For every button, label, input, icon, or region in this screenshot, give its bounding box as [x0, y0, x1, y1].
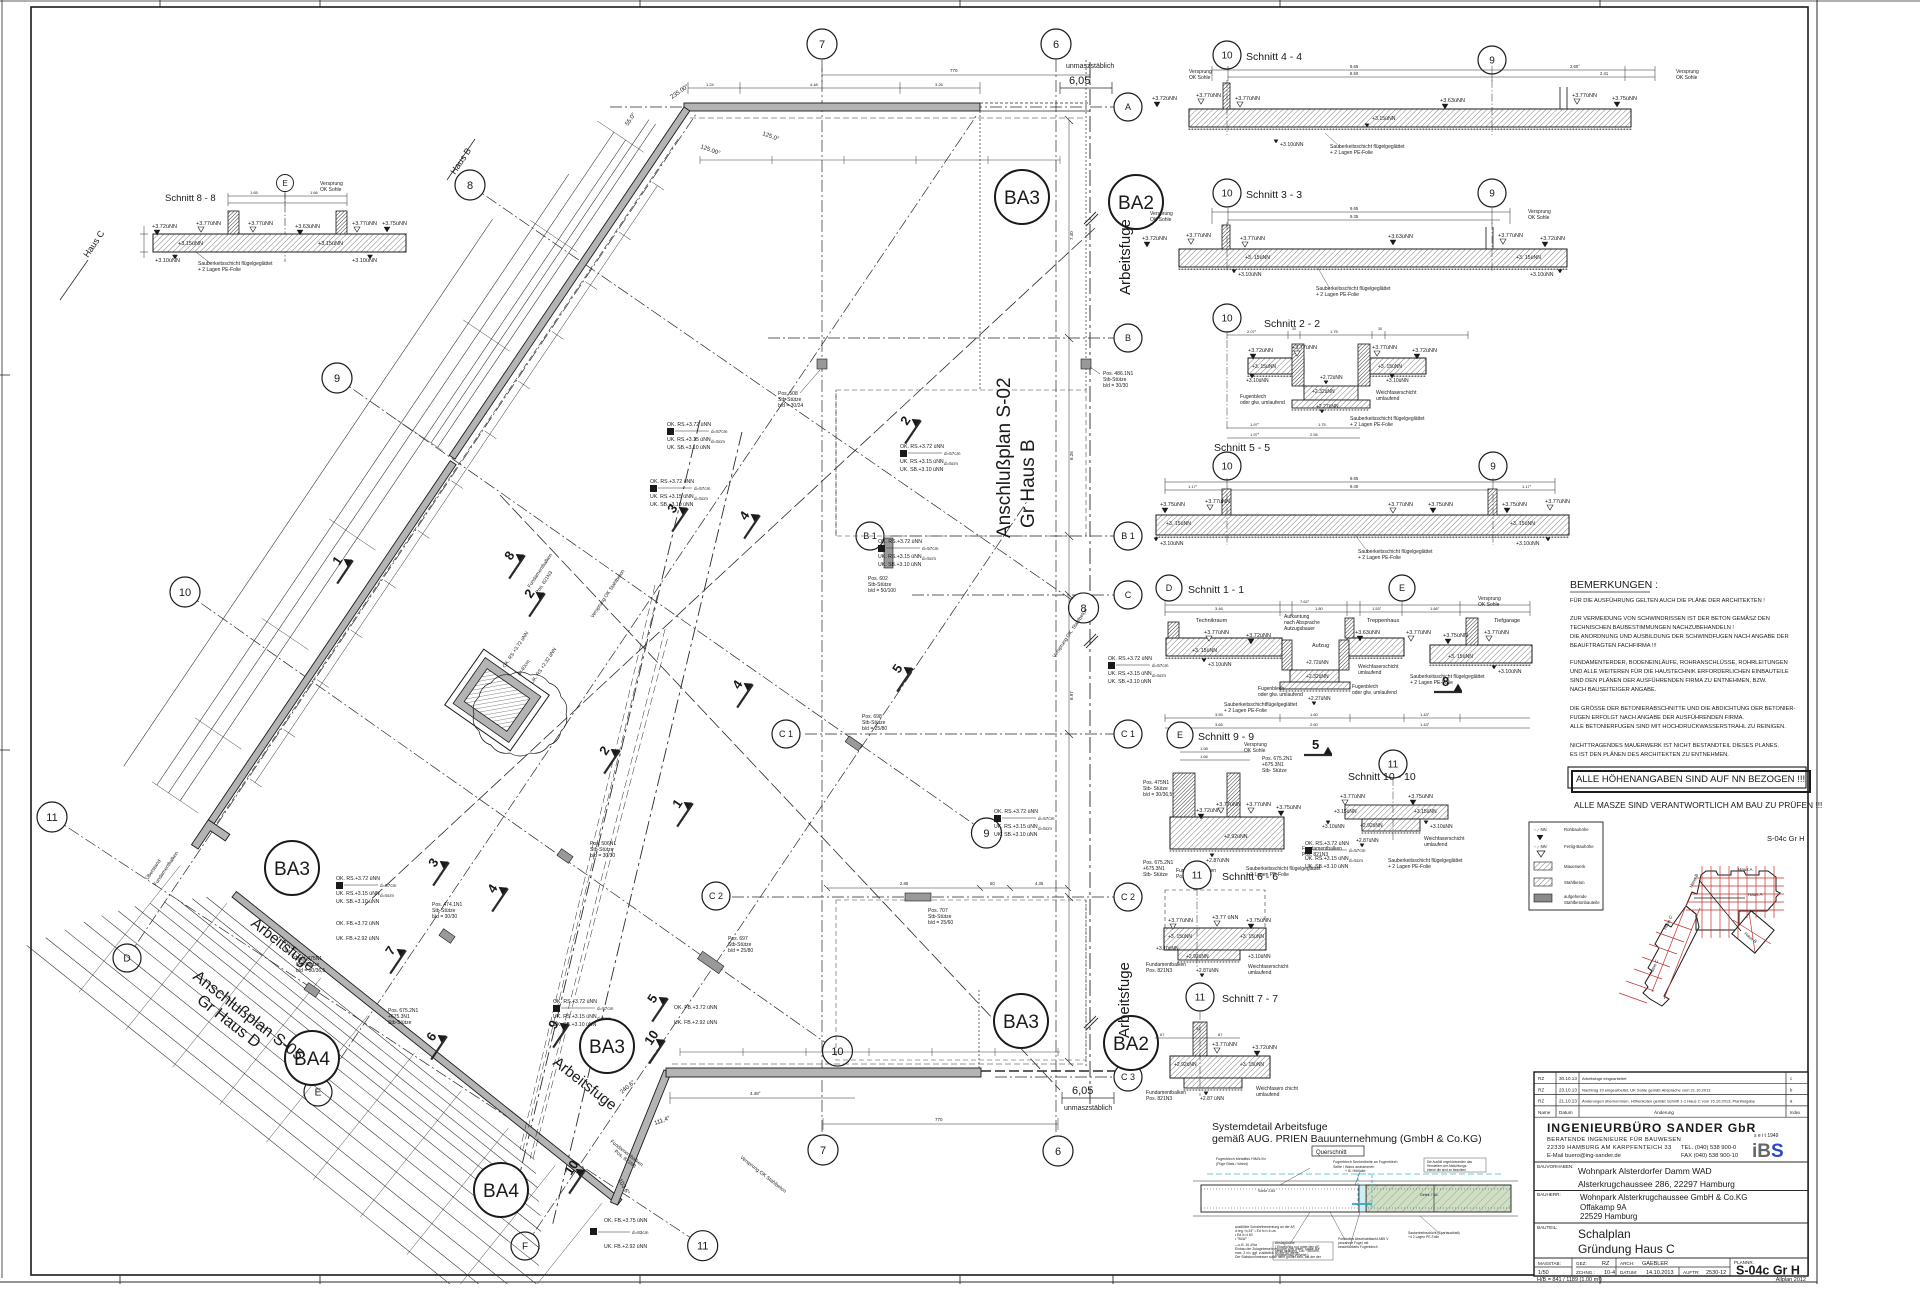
svg-text:+3.75üNN: +3.75üNN: [1612, 96, 1637, 102]
svg-text:Schnitt 6 - 6: Schnitt 6 - 6: [1222, 871, 1278, 883]
grid bubble C 2: [1114, 883, 1142, 911]
svg-text:Haus A: Haus A: [1738, 867, 1753, 872]
grid line A (horizontal): [610, 106, 1114, 108]
svg-text:+3.77 üNN: +3.77 üNN: [1212, 915, 1238, 921]
svg-text:8: 8: [467, 180, 473, 192]
svg-text:+3.77üNN: +3.77üNN: [1205, 499, 1230, 505]
S7 dims: [1155, 1037, 1240, 1039]
svg-text:d=5cm: d=5cm: [944, 461, 958, 466]
dim lines S3: [1212, 211, 1510, 213]
svg-text:5: 5: [1312, 737, 1319, 752]
grid bubble 8: [455, 170, 485, 200]
section marker 4: [731, 680, 753, 708]
svg-text:10: 10: [1221, 51, 1233, 62]
centerlines S5: [1226, 494, 1228, 545]
svg-text:1.80: 1.80: [1315, 606, 1324, 611]
svg-text:9: 9: [334, 373, 340, 385]
svg-text:+3.63üNN: +3.63üNN: [295, 224, 320, 230]
svg-text:UK. FB.+2.92 üNN: UK. FB.+2.92 üNN: [336, 936, 379, 942]
svg-text:10-4: 10-4: [1604, 1270, 1615, 1276]
svg-text:umlaufend: umlaufend: [1248, 970, 1272, 976]
wall: top wing horizontal band: [684, 103, 980, 111]
svg-text:Datum: Datum: [1559, 1110, 1573, 1115]
section marker 4: [738, 511, 760, 539]
dim lines top left of wall: [688, 87, 980, 89]
svg-text:Sohle 2.84: Sohle 2.84: [1258, 1189, 1275, 1193]
svg-text:d=57cm: d=57cm: [1349, 848, 1366, 853]
svg-text:Stb- Stütze: Stb- Stütze: [1262, 768, 1287, 774]
column Pos.602 (bar): [884, 538, 893, 568]
grid bubble 10 (S4): [1213, 41, 1241, 69]
svg-text:d=57cm: d=57cm: [1038, 816, 1055, 821]
svg-text:+3.10üNN: +3.10üNN: [1238, 272, 1262, 278]
section marker 1: [331, 556, 353, 584]
grid bubble E (S1): [1389, 575, 1415, 601]
grid line D (diagonal): [127, 112, 697, 958]
grid line 6 (vertical): [1055, 60, 1057, 1135]
svg-text:+3.77üNN: +3.77üNN: [1240, 236, 1265, 242]
svg-text:+3.77üNN: +3.77üNN: [1545, 499, 1570, 505]
inner face dashed line along diagonal wall: [217, 139, 678, 823]
svg-text:Systemdetail Arbeitsfuge: Systemdetail Arbeitsfuge: [1212, 1121, 1328, 1133]
svg-text:+3.77üNN: +3.77üNN: [1186, 233, 1211, 239]
svg-text:OK. FB.+3.75 üNN: OK. FB.+3.75 üNN: [604, 1218, 648, 1224]
mini plan Haus B square: [1732, 911, 1774, 953]
svg-text:6: 6: [1053, 39, 1059, 51]
svg-text:Alsterkrugchaussee 286, 22297: Alsterkrugchaussee 286, 22297 Hamburg: [1578, 1179, 1735, 1189]
svg-text:OK Sohle: OK Sohle: [1676, 75, 1698, 81]
svg-text:d=5cm: d=5cm: [1152, 673, 1166, 678]
svg-text:b/d = 25/80: b/d = 25/80: [728, 948, 753, 954]
svg-text:50: 50: [990, 881, 995, 886]
svg-text:+3.75üNN: +3.75üNN: [1276, 805, 1301, 811]
svg-text:DIE ANORDNUNG UND AUSBILDUNG D: DIE ANORDNUNG UND AUSBILDUNG DER SCHWIND…: [1570, 634, 1789, 640]
svg-text:Anschlußplan S-02: Anschlußplan S-02: [994, 377, 1015, 538]
grid line E (diagonal): [318, 114, 978, 1092]
svg-text:Mauerwerk: Mauerwerk: [1564, 864, 1586, 869]
svg-text:Rohbauhöhe: Rohbauhöhe: [1564, 827, 1589, 832]
svg-text:d=5cm: d=5cm: [694, 496, 708, 501]
zone circle BA4 left: [285, 1031, 339, 1085]
svg-text:8.50: 8.50: [1350, 71, 1359, 76]
wall: upper-left diagonal band (part 1): [449, 107, 690, 459]
svg-text:2.60: 2.60: [1310, 722, 1319, 727]
svg-text:22339 HAMBURG AM KARPFENTEICH: 22339 HAMBURG AM KARPFENTEICH 33: [1547, 1145, 1672, 1151]
S2 left pier: [1292, 344, 1304, 386]
svg-text:+3.77üNN: +3.77üNN: [196, 221, 221, 227]
svg-text:+ 2 Lagen PE-Folie: + 2 Lagen PE-Folie: [1358, 555, 1401, 561]
svg-text:OK. RS.+3.72 üNN: OK. RS.+3.72 üNN: [650, 479, 694, 485]
svg-text:b/d = 30/30: b/d = 30/30: [590, 853, 615, 859]
grid bubble B: [1114, 324, 1142, 352]
svg-text:+2.92üNN: +2.92üNN: [1224, 834, 1248, 840]
svg-text:3.26: 3.26: [935, 82, 944, 87]
svg-text:+3.75üNN: +3.75üNN: [1408, 794, 1433, 800]
svg-text:AUFTR:: AUFTR:: [1683, 1270, 1700, 1275]
svg-text:FUNDAMENTERDER, BODENEINLÄUFE,: FUNDAMENTERDER, BODENEINLÄUFE, ROHRANSCH…: [1570, 659, 1788, 666]
svg-text:+3.10üNN: +3.10üNN: [1322, 824, 1345, 830]
svg-text:BAUHERR:: BAUHERR:: [1537, 1192, 1561, 1197]
svg-text:+3.10üNN: +3.10üNN: [1430, 824, 1453, 830]
section cut line 2: [500, 495, 1060, 1090]
dotted slab edges lower wing: [978, 990, 980, 1068]
svg-text:S-04c Gr H: S-04c Gr H: [1736, 1264, 1800, 1278]
leader lines bottom: [1290, 1212, 1310, 1244]
svg-text:3.46: 3.46: [1215, 606, 1224, 611]
section marker 2: [523, 589, 545, 617]
svg-text:UK. RS.+3.15 üNN: UK. RS.+3.15 üNN: [336, 891, 380, 897]
dim line 4.48 bottom: [670, 1097, 855, 1099]
grid line C 1 (horizontal): [805, 733, 1114, 735]
zone circle BA3 left: [265, 841, 319, 895]
BA boundary line 1 (Arbeitsfuge diagonal): [510, 420, 700, 1215]
svg-text:Gr Haus B: Gr Haus B: [1018, 439, 1039, 528]
svg-text:+3.63üNN: +3.63üNN: [1355, 630, 1380, 636]
svg-text:1.97°: 1.97°: [1250, 432, 1260, 437]
svg-text:BERATENDE INGENIEURE FÜR BAUWE: BERATENDE INGENIEURE FÜR BAUWESEN: [1547, 1136, 1681, 1143]
svg-text:+3.15üNN: +3.15üNN: [1334, 809, 1357, 815]
svg-text:oder glw. umlaufend: oder glw. umlaufend: [1240, 400, 1285, 406]
svg-text:9: 9: [1490, 462, 1496, 473]
dim line 770 bottom (grid 7-6): [823, 1123, 1058, 1125]
section marker 5: [646, 994, 668, 1022]
svg-text:1.75: 1.75: [1330, 329, 1339, 334]
pier left 8-8: [228, 211, 239, 234]
svg-text:TEL. (040) 538 900-0: TEL. (040) 538 900-0: [1681, 1145, 1736, 1151]
grid bubble C 2 left: [702, 882, 730, 910]
svg-text:2530-12: 2530-12: [1706, 1270, 1726, 1276]
svg-text:E: E: [1399, 583, 1405, 593]
S1 pit walls: [1282, 640, 1292, 670]
svg-text:d=83cm: d=83cm: [632, 1230, 649, 1235]
svg-text:+3.77üNN: +3.77üNN: [1246, 802, 1271, 808]
svg-text:1.43°: 1.43°: [1420, 722, 1430, 727]
grid line B 1 (horizontal): [890, 535, 1114, 537]
svg-text:d=5cm: d=5cm: [711, 439, 725, 444]
grid line C 3 (horizontal): [995, 1076, 1114, 1078]
grid line 11 (diagonal): [52, 817, 691, 1238]
svg-text:9.65: 9.65: [1350, 476, 1359, 481]
svg-text:-.,- NN: -.,- NN: [1534, 844, 1547, 849]
svg-text:TECHNISCHEN BAUBESTIMMUNGEN NA: TECHNISCHEN BAUBESTIMMUNGEN NACHZUBEHAND…: [1570, 625, 1734, 631]
S6 dashed box: [1165, 890, 1265, 928]
svg-text:9: 9: [1489, 189, 1495, 200]
svg-text:Stahlbetonbauteile: Stahlbetonbauteile: [1564, 900, 1600, 905]
svg-text:Technikraum: Technikraum: [1196, 618, 1228, 624]
svg-text:3.59: 3.59: [1215, 712, 1224, 717]
BA boundary line 2: [552, 432, 742, 1227]
svg-text:+3.10üNN: +3.10üNN: [1530, 272, 1554, 278]
dim line 770 top: [822, 74, 1090, 76]
svg-text:+2.92üNN: +2.92üNN: [1186, 954, 1209, 960]
boxed note NN: [1568, 767, 1806, 788]
grid bubble C 1 left: [772, 720, 800, 748]
S7 centerline: [1199, 1012, 1201, 1096]
svg-text:d=5cm: d=5cm: [1349, 858, 1363, 863]
svg-text:BEMERKUNGEN :: BEMERKUNGEN :: [1570, 579, 1658, 591]
S2 centerline: [1226, 340, 1228, 430]
svg-text:+3.63üNN: +3.63üNN: [1440, 98, 1465, 104]
svg-text:+3.77üNN: +3.77üNN: [1372, 345, 1397, 351]
dim ticks left of band: [140, 233, 148, 235]
S7 pier: [1193, 1022, 1207, 1056]
svg-text:BA4: BA4: [483, 1181, 519, 1202]
dimension fan upper-left: [438, 124, 656, 447]
svg-text:S-04c Gr H: S-04c Gr H: [1767, 834, 1805, 843]
svg-text:+3.10üNN: +3.10üNN: [1248, 954, 1271, 960]
svg-text:1.43°: 1.43°: [1420, 712, 1430, 717]
svg-text:+3.15üNN: +3.15üNN: [178, 241, 203, 247]
svg-text:UK. FB.+2.92 üNN: UK. FB.+2.92 üNN: [604, 1244, 647, 1250]
leader lines: [1280, 1168, 1310, 1185]
svg-text:BAUTEIL:: BAUTEIL:: [1537, 1225, 1557, 1230]
svg-text:+ 2 Lagen PE-Folie: + 2 Lagen PE-Folie: [1350, 422, 1393, 428]
svg-text:Änderung: Änderung: [1654, 1109, 1674, 1115]
mini plan black section lines: [1699, 880, 1741, 931]
svg-text:4.48°: 4.48°: [750, 1091, 761, 1096]
column Pos.508: [817, 359, 827, 369]
S2 right pier: [1358, 344, 1370, 386]
svg-text:1.17°: 1.17°: [1522, 484, 1532, 489]
inner face dashed line along top wall: [690, 117, 1085, 119]
svg-text:DIE GRÖSSE DER BETONIERABSCHNI: DIE GRÖSSE DER BETONIERABSCHNITTE UND DI…: [1570, 705, 1796, 712]
svg-text:+3. 15üNN: +3. 15üNN: [1378, 364, 1402, 370]
svg-text:UK. SB.+3.10 üNN: UK. SB.+3.10 üNN: [650, 502, 694, 508]
grid bubble C 1: [1114, 720, 1142, 748]
grid bubble 6 bottom: [1043, 1136, 1073, 1166]
S1 mid band: [1347, 638, 1404, 656]
svg-text:Stahlbeton: Stahlbeton: [1564, 880, 1585, 885]
grid bubble 10 (S3): [1213, 179, 1241, 207]
svg-text:1.53°: 1.53°: [1372, 606, 1382, 611]
svg-text:+3.75üNN: +3.75üNN: [1246, 918, 1271, 924]
dims S2 bottom: [1227, 427, 1360, 429]
wall: bottom horizontal band: [666, 1068, 981, 1077]
wall: lower-left edge band: [232, 892, 622, 1206]
svg-text:2.85: 2.85: [900, 881, 909, 886]
svg-text:S: S: [1771, 1141, 1784, 1162]
detail slab right (green hatch): [1366, 1185, 1511, 1212]
svg-text:Querschnitt: Querschnitt: [1316, 1150, 1347, 1156]
grid bubble D (S1): [1156, 575, 1182, 601]
svg-text:BA3: BA3: [274, 859, 310, 880]
svg-text:3.65: 3.65: [1215, 722, 1224, 727]
svg-text:d=57cm: d=57cm: [711, 429, 728, 434]
wall: upper-left diagonal band (part 2 after jog): [208, 461, 456, 824]
svg-text:Treppenhaus: Treppenhaus: [1367, 618, 1399, 624]
svg-text:+3. 15üNN: +3. 15üNN: [1166, 521, 1191, 527]
horizontal dim chain mid right: [827, 887, 1068, 889]
svg-text:6: 6: [1055, 1146, 1061, 1158]
svg-text:22529 Hamburg: 22529 Hamburg: [1580, 1212, 1637, 1221]
grid bubble E: [304, 1078, 332, 1106]
svg-text:+3.72üNN: +3.72üNN: [152, 224, 177, 230]
S1 pit: [1290, 670, 1339, 682]
svg-text:+3.77üNN: +3.77üNN: [248, 221, 273, 227]
svg-text:+3. 15üNN: +3. 15üNN: [1240, 1062, 1264, 1068]
svg-text:Wohnpark Alsterdorfer Damm WAD: Wohnpark Alsterdorfer Damm WAD: [1578, 1166, 1712, 1176]
mini plan red square cross: [1733, 920, 1771, 944]
svg-text:E-Mail buero@ing-sander.de: E-Mail buero@ing-sander.de: [1547, 1153, 1621, 1159]
svg-text:Stb- Stütze: Stb- Stütze: [1143, 872, 1168, 878]
svg-text:+3.77üNN: +3.77üNN: [352, 221, 377, 227]
svg-text:+3.10üNN: +3.10üNN: [155, 258, 180, 264]
S1 right band: [1430, 645, 1532, 663]
title block outer: [1534, 1072, 1808, 1276]
svg-text:+3.75üNN: +3.75üNN: [382, 221, 407, 227]
svg-text:GAEBLER: GAEBLER: [1642, 1261, 1668, 1267]
svg-text:MASSTAB:: MASSTAB:: [1538, 1261, 1561, 1266]
svg-text:RZ: RZ: [1538, 1076, 1544, 1081]
dims S9: [1180, 751, 1250, 753]
svg-text:+3.10üNN: +3.10üNN: [1516, 541, 1540, 547]
svg-text:+3.72üNN: +3.72üNN: [1248, 348, 1273, 354]
svg-text:+3.77üNN: +3.77üNN: [1168, 918, 1193, 924]
svg-text:+3. 15üNN: +3. 15üNN: [1168, 934, 1192, 940]
pier left S4: [1223, 83, 1230, 109]
svg-text:Gefek 7.84.: Gefek 7.84.: [1420, 1193, 1439, 1197]
svg-text:+2.87üNN: +2.87üNN: [1356, 838, 1379, 844]
grid bubble 9 end: [971, 818, 1001, 848]
left edge ticks: [0, 374, 10, 376]
grid bubble C 3: [1114, 1063, 1142, 1091]
svg-text:Allplan 2012: Allplan 2012: [1776, 1277, 1806, 1283]
grid bubble 7 bottom: [808, 1135, 838, 1165]
svg-text:UK. SB.+3.10 üNN: UK. SB.+3.10 üNN: [553, 1022, 597, 1028]
mini plan Haus A bar: [1686, 871, 1780, 930]
wall: lower-left stepped corner: [192, 820, 230, 849]
svg-text:umlaufend: umlaufend: [1376, 396, 1400, 402]
svg-text:+3.77üNN: +3.77üNN: [1235, 96, 1260, 102]
svg-text:b/d = 30/30: b/d = 30/30: [432, 914, 457, 920]
svg-text:OK. RS.+3.72 üNN: OK. RS.+3.72 üNN: [667, 422, 711, 428]
section marker 4: [486, 884, 508, 912]
grid line C 2 (horizontal): [732, 896, 1114, 898]
svg-text:7: 7: [819, 39, 825, 51]
svg-text:b/d = 25/60: b/d = 25/60: [928, 920, 953, 926]
column Pos.697: [697, 951, 723, 973]
dim chain top wing inside: [700, 159, 1060, 161]
svg-text:11: 11: [697, 1241, 708, 1253]
svg-text:UK. SB.+3.10 üNN: UK. SB.+3.10 üNN: [994, 832, 1038, 838]
svg-text:+3.63üNN: +3.63üNN: [1388, 234, 1413, 240]
svg-text:UK. RS.+3.15 üNN: UK. RS.+3.15 üNN: [900, 459, 944, 465]
section marker 10: [643, 1036, 665, 1064]
grid bubble 10 end: [822, 1036, 852, 1066]
svg-text:Arbeitsfuge: Arbeitsfuge: [1117, 219, 1134, 295]
pier right 8-8: [336, 211, 347, 234]
section marker 8: [1434, 684, 1462, 692]
svg-text:1/50: 1/50: [1538, 1270, 1549, 1276]
svg-text:67: 67: [1218, 1032, 1223, 1037]
svg-text:6,05: 6,05: [1069, 75, 1090, 87]
svg-text:+3. 15üNN: +3. 15üNN: [1448, 654, 1473, 660]
grid line F (diagonal): [525, 500, 1028, 1246]
svg-text:1.17°: 1.17°: [1188, 484, 1198, 489]
centerlines S3: [1226, 222, 1228, 272]
S2 pit bottom band: [1304, 386, 1358, 400]
bottom sheet strip: [0, 1281, 1817, 1283]
svg-text:gemäß AUG. PRIEN Bauunternehmu: gemäß AUG. PRIEN Bauunternehmung (GmbH &…: [1212, 1133, 1482, 1145]
svg-text:+2.32üNN: +2.32üNN: [1306, 674, 1329, 680]
svg-text:B 1: B 1: [1121, 531, 1135, 541]
svg-text:b/d = 30/36,5: b/d = 30/36,5: [296, 968, 326, 974]
svg-text:Fertig-Bauhöhe: Fertig-Bauhöhe: [1564, 844, 1594, 849]
svg-text:d=57cm: d=57cm: [694, 486, 711, 491]
grid bubble E (Schnitt 8-8): [277, 175, 294, 192]
svg-text:F: F: [522, 1242, 528, 1253]
grid bubble B 1 left: [856, 522, 884, 550]
S1 piers: [1168, 622, 1179, 638]
column Pos.698: [845, 736, 862, 751]
svg-text:11: 11: [1388, 760, 1399, 771]
svg-text:Fugenblech Senkerlbeite an Fug: Fugenblech Senkerlbeite an Fugenblech: [1333, 1160, 1398, 1164]
svg-text:11: 11: [46, 812, 57, 824]
S9 piers: [1173, 773, 1195, 817]
section marker 3: [666, 504, 688, 532]
bottom band dashed continuation: [981, 1070, 1115, 1072]
svg-text:d=5cm: d=5cm: [380, 893, 394, 898]
svg-text:+3. 15üNN: +3. 15üNN: [1192, 648, 1217, 654]
svg-text:7.62°: 7.62°: [1300, 599, 1310, 604]
svg-text:+2.72üNN: +2.72üNN: [1320, 375, 1343, 381]
grid bubble 6 top: [1041, 29, 1071, 59]
grid bubble 11 end: [688, 1231, 718, 1261]
svg-text:Pos. 821N3: Pos. 821N3: [1146, 968, 1172, 974]
revision cloud around shaft: [561, 714, 567, 731]
svg-text:8.26: 8.26: [1069, 451, 1074, 460]
section marker 6: [425, 1032, 447, 1060]
svg-text:UK. SB.+3.10 üNN: UK. SB.+3.10 üNN: [878, 562, 922, 568]
svg-text:OK. RS.+3.72 üNN: OK. RS.+3.72 üNN: [878, 539, 922, 545]
svg-text:+3.77üNN: +3.77üNN: [1484, 630, 1509, 636]
svg-text:oder glw. umlaufend: oder glw. umlaufend: [1258, 692, 1303, 698]
grid line 10 (diagonal): [185, 592, 826, 1043]
pier right S3 (double): [1485, 227, 1487, 249]
section marker 5: [891, 664, 913, 692]
svg-text:GEZ:: GEZ:: [1576, 1261, 1587, 1266]
svg-text:ALLE MASZE SIND VERANTWORTLICH: ALLE MASZE SIND VERANTWORTLICH AM BAU ZU…: [1574, 800, 1822, 810]
svg-text:beachtlarkeits Fugenblech: beachtlarkeits Fugenblech: [1338, 1245, 1378, 1249]
svg-text:RZ: RZ: [1538, 1087, 1544, 1092]
svg-text:OK Sohle: OK Sohle: [1478, 602, 1500, 608]
svg-text:+3.75üNN: +3.75üNN: [1502, 502, 1527, 508]
dim chain above bottom band: [680, 1051, 1060, 1053]
svg-text:+3.10üNN: +3.10üNN: [1280, 142, 1304, 148]
column Pos.486.1N1: [1081, 359, 1091, 369]
svg-text:2.07°: 2.07°: [1247, 329, 1257, 334]
svg-text:FAX (040) 538 900-10: FAX (040) 538 900-10: [1681, 1153, 1738, 1159]
S1 left band: [1166, 638, 1282, 656]
svg-text:1.75: 1.75: [1318, 422, 1327, 427]
svg-text:+3.10üNN: +3.10üNN: [1160, 541, 1184, 547]
section marker 9: [547, 1020, 569, 1048]
S2 right upper band: [1370, 358, 1426, 374]
svg-text:BA3: BA3: [1004, 188, 1040, 209]
svg-text:+2.87 üNN: +2.87 üNN: [1200, 1096, 1224, 1102]
svg-text:1.97°: 1.97°: [1250, 422, 1260, 427]
svg-text:10: 10: [179, 587, 191, 599]
hatched floor band 8-8: [153, 234, 406, 252]
S6 band: [1164, 928, 1266, 950]
svg-text:Schnitt 1 - 1: Schnitt 1 - 1: [1188, 584, 1244, 596]
svg-text:UK. RS.+3.15 üNN: UK. RS.+3.15 üNN: [650, 494, 694, 500]
svg-text:+3. 15üNN: +3. 15üNN: [1516, 255, 1541, 261]
svg-text:+3.10üNN: +3.10üNN: [1498, 669, 1522, 675]
svg-text:Haus A: Haus A: [1748, 892, 1763, 897]
svg-text:UK. SB.+3.10 üNN: UK. SB.+3.10 üNN: [336, 899, 380, 905]
dims S5: [1165, 481, 1555, 483]
